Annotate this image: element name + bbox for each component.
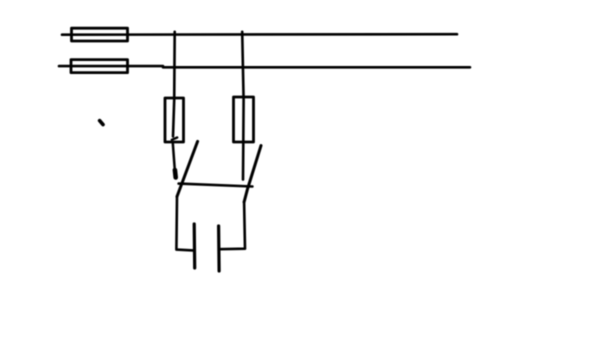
arrowhead end of left drop wire — [173, 170, 178, 178]
wire below fuse F4 — [242, 142, 245, 180]
wire left lower vertical to bottom — [176, 197, 193, 251]
wire bus L1 (top horizontal) — [62, 33, 457, 36]
fuse F1 (top left, horizontal) — [72, 28, 128, 41]
switch contact S2 blade (right) — [244, 146, 261, 202]
stray pen mark — [100, 121, 103, 125]
wire right lower vertical to bottom — [219, 202, 245, 249]
terminal pin P2 (right plate) — [217, 226, 221, 271]
wire vertical drop 1 from bus L1 — [173, 32, 175, 137]
wire below fuse F3 — [173, 143, 175, 170]
fuse F2 (second row left, horizontal) — [71, 60, 128, 73]
fuse F4 (vertical, right branch) — [234, 97, 254, 142]
fuse F3 (vertical, left branch) — [165, 98, 184, 142]
wire bus L2 (second horizontal) — [59, 66, 470, 67]
switch contact S1 blade (left) — [177, 141, 198, 196]
terminal pin P1 (left plate) — [193, 224, 197, 268]
wire tick at fuse F3 bottom — [172, 138, 177, 140]
linkage bar between switch blades — [179, 184, 253, 187]
wire vertical drop 2 from bus L1 — [242, 32, 243, 142]
